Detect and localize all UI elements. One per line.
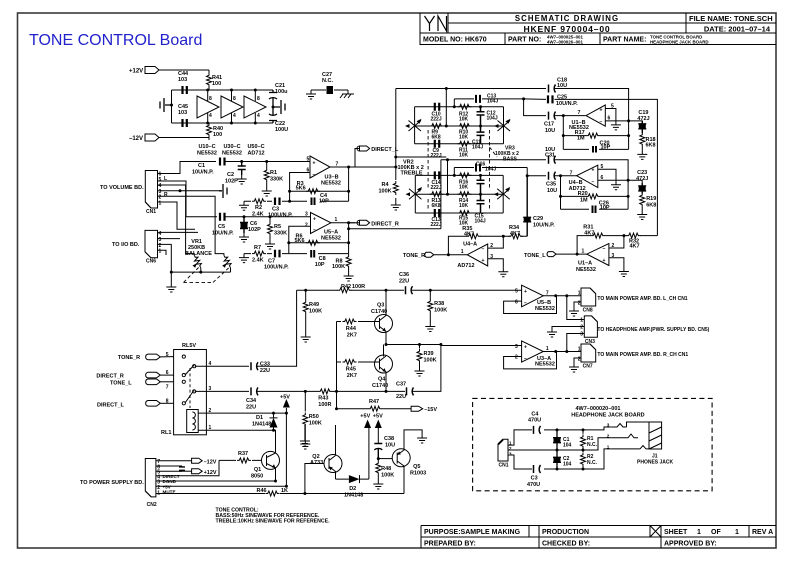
svg-text:10U/N.P.: 10U/N.P.: [556, 101, 578, 107]
svg-text:OF: OF: [711, 529, 721, 536]
svg-text:CN1: CN1: [499, 463, 509, 469]
dashed box: [473, 398, 712, 490]
svg-text:1: 1: [509, 440, 512, 445]
svg-text:1: 1: [461, 249, 464, 255]
capacitor C5: [220, 213, 225, 221]
capacitor C26: [593, 206, 596, 214]
svg-text:8: 8: [233, 96, 236, 102]
svg-text:−: −: [482, 247, 485, 253]
svg-text:TONE_L: TONE_L: [524, 253, 546, 259]
svg-text:DIRECT_R: DIRECT_R: [96, 374, 124, 380]
svg-text:4: 4: [209, 113, 212, 119]
connector CN8: [581, 288, 596, 306]
wires CN6: [158, 232, 199, 283]
transistor Q5: [378, 458, 392, 460]
svg-text:C16: C16: [476, 162, 485, 168]
resistor R12: [457, 104, 471, 109]
capacitor C16v: [477, 175, 485, 194]
op-amp U3-A: [522, 341, 544, 362]
capacitor C4: [312, 198, 315, 206]
svg-text:222J: 222J: [431, 222, 442, 228]
svg-text:−: −: [313, 172, 316, 178]
svg-text:D2: D2: [349, 486, 356, 492]
svg-text:FILE NAME: TONE.SCH: FILE NAME: TONE.SCH: [689, 14, 773, 23]
svg-text:6: 6: [601, 175, 604, 181]
output wire / feedback U3-B: [290, 167, 355, 201]
labels U10-C U30-C U50-C: [197, 144, 265, 157]
svg-text:3: 3: [612, 253, 615, 259]
svg-text:22U: 22U: [246, 405, 256, 411]
resistor R11: [457, 141, 471, 146]
svg-text:4: 4: [233, 113, 236, 119]
svg-text:–15V: –15V: [424, 407, 437, 413]
potentiometer VR1a: [186, 252, 195, 255]
connector CN2: [145, 459, 156, 497]
capacitor C36: [406, 286, 413, 294]
svg-text:R44: R44: [346, 326, 357, 332]
svg-text:6K8: 6K8: [646, 203, 656, 209]
wire cell to U4-A: [445, 156, 447, 158]
resistor R4: [393, 181, 398, 195]
svg-text:1M: 1M: [577, 135, 585, 141]
svg-text:C37: C37: [396, 382, 406, 388]
svg-text:AD712: AD712: [247, 151, 264, 157]
svg-text:D1: D1: [256, 415, 263, 421]
op-amp U5-A: [311, 213, 331, 234]
dashed gang link: [184, 268, 229, 283]
svg-text:+5V: +5V: [280, 395, 290, 401]
svg-text:8: 8: [166, 398, 169, 404]
svg-text:TO VOLUME BD.: TO VOLUME BD.: [100, 185, 144, 191]
svg-text:C25: C25: [557, 95, 567, 101]
svg-text:10K: 10K: [459, 203, 469, 209]
svg-text:10U/N.P.: 10U/N.P.: [533, 223, 555, 229]
svg-text:102P: 102P: [225, 179, 238, 185]
diode D1: [270, 413, 278, 430]
port DIRECT_R: [349, 222, 360, 224]
wire rails to buffers: [441, 345, 522, 347]
resistor R3: [306, 189, 320, 194]
svg-text:330K: 330K: [274, 231, 287, 237]
op-amp U4-A (points left): [467, 244, 488, 266]
svg-text:+5V: +5V: [360, 414, 370, 420]
svg-text:2: 2: [607, 433, 610, 438]
pin wires: [156, 460, 219, 475]
svg-text:1: 1: [159, 201, 162, 207]
svg-text:+: +: [524, 289, 527, 295]
svg-text:Q3: Q3: [377, 303, 384, 309]
svg-text:–12V: –12V: [204, 460, 217, 466]
svg-text:SCHEMATIC DRAWING: SCHEMATIC DRAWING: [515, 14, 619, 23]
relay coil: [187, 410, 199, 433]
svg-text:330K: 330K: [270, 177, 283, 183]
svg-text:C34: C34: [246, 398, 257, 404]
svg-text:10U/N.P.: 10U/N.P.: [212, 231, 234, 237]
svg-text:PRODUCTION: PRODUCTION: [542, 529, 589, 536]
svg-text:C29: C29: [533, 216, 543, 222]
pot left arrow: [409, 189, 422, 200]
pot VR3 right arrow: [498, 121, 511, 132]
svg-text:10P: 10P: [600, 205, 610, 211]
op-amp U1-A (points left): [587, 244, 609, 266]
svg-text:–12V: –12V: [129, 136, 143, 142]
svg-text:C35: C35: [546, 182, 556, 188]
capacitor C15: [477, 194, 485, 213]
capacitor C13: [476, 95, 480, 103]
svg-text:+: +: [313, 217, 316, 223]
riser + C16 row: [448, 160, 528, 195]
svg-text:104J: 104J: [485, 166, 496, 172]
svg-text:1: 1: [607, 444, 610, 449]
contacts: [182, 355, 185, 358]
svg-text:R19: R19: [646, 196, 656, 202]
capacitor C31: [549, 156, 556, 164]
svg-text:10K: 10K: [459, 152, 469, 158]
svg-text:−: −: [313, 228, 316, 234]
svg-text:N.C.: N.C.: [587, 460, 598, 466]
wires from CN1: [158, 162, 217, 174]
resistor R15 top: [457, 173, 471, 178]
capacitor C2: [553, 450, 561, 469]
resistor R44: [337, 321, 380, 323]
svg-text:3: 3: [515, 344, 518, 350]
svg-text:222J: 222J: [431, 185, 442, 191]
pot VR2 left arrow: [409, 121, 422, 132]
svg-text:22U: 22U: [399, 279, 409, 285]
op-amp U1-B (points left): [586, 105, 605, 126]
resistor R19: [640, 193, 645, 207]
pin5 to ground: [605, 109, 616, 121]
port -15V: [411, 406, 423, 411]
feedback loop: [504, 296, 581, 314]
CN3 wires: [552, 296, 584, 352]
svg-text:C33: C33: [260, 362, 270, 368]
svg-text:2K7: 2K7: [347, 333, 357, 339]
svg-text:22U: 22U: [260, 368, 270, 374]
svg-text:100K: 100K: [309, 421, 322, 427]
resistor R41: [207, 73, 212, 87]
svg-text:2: 2: [580, 325, 583, 331]
svg-text:R46: R46: [257, 488, 267, 494]
pin6 wire: [598, 180, 642, 183]
resistor R38: [429, 289, 432, 292]
svg-text:−: −: [592, 180, 595, 186]
port DIRECT_L: [330, 149, 360, 168]
svg-text:102P: 102P: [248, 227, 261, 233]
CN7 pin2 ground: [574, 358, 581, 363]
svg-text:TO HEADPHONE AMP.(PWR. SUPPLY: TO HEADPHONE AMP.(PWR. SUPPLY BD. CN5): [597, 327, 709, 333]
svg-text:2.4K: 2.4K: [252, 258, 264, 264]
resistor R43: [304, 390, 307, 393]
resistor R14: [457, 192, 471, 197]
rails: [415, 107, 504, 144]
svg-text:100R: 100R: [318, 402, 331, 408]
svg-text:HEADPHONE JACK BOARD: HEADPHONE JACK BOARD: [650, 40, 709, 45]
svg-text:TONE_R: TONE_R: [118, 355, 140, 361]
capacitor C45: [183, 119, 187, 127]
op-amp U3-B: [310, 156, 330, 178]
capacitor C8: [311, 250, 314, 258]
svg-text:R37: R37: [238, 451, 248, 457]
potentiometer VR1b: [215, 252, 224, 255]
capacitor C12: [477, 107, 485, 126]
svg-text:NE5532: NE5532: [576, 267, 596, 273]
diode D2: [336, 475, 369, 483]
svg-text:Q1: Q1: [254, 467, 261, 473]
svg-text:TO I/O BD.: TO I/O BD.: [112, 242, 140, 248]
svg-text:5: 5: [166, 352, 169, 358]
svg-text:104J: 104J: [487, 98, 498, 104]
base bias vertical: [336, 322, 338, 409]
svg-text:+5V: +5V: [373, 414, 383, 420]
svg-text:104J: 104J: [487, 115, 498, 121]
svg-text:C17: C17: [544, 122, 554, 128]
svg-text:8050: 8050: [251, 474, 263, 480]
resistor R6: [306, 240, 320, 245]
svg-text:4K7: 4K7: [464, 231, 474, 237]
resistor R32: [624, 235, 658, 237]
connector CN1: [145, 171, 157, 209]
resistor R40: [207, 123, 212, 137]
op-amp U5-B: [522, 285, 544, 307]
feedback R17: [563, 116, 628, 150]
resistor R48: [377, 459, 379, 461]
svg-text:CN7: CN7: [583, 364, 593, 370]
svg-text:100K: 100K: [379, 189, 392, 195]
connector CN7: [581, 344, 596, 362]
svg-text:−: −: [524, 356, 527, 362]
svg-text:1N4148: 1N4148: [252, 422, 271, 428]
svg-text:5K6: 5K6: [296, 185, 306, 191]
mid node wire: [386, 344, 441, 346]
svg-text:R5: R5: [274, 224, 281, 230]
capacitor C44: [183, 86, 187, 94]
capacitor C9: [435, 140, 439, 148]
wire to treble net: [349, 89, 447, 181]
svg-text:PREPARED BY:: PREPARED BY:: [424, 541, 476, 548]
svg-text:+: +: [524, 345, 527, 351]
svg-text:6: 6: [515, 300, 518, 306]
capacitor C10: [435, 103, 439, 111]
wire lower rail to bass net: [349, 160, 448, 229]
svg-text:C31: C31: [545, 153, 555, 159]
wires U5-A: [289, 223, 355, 254]
resistor R42: [338, 288, 352, 293]
VR1 bottom rail: [171, 271, 230, 273]
connector CN6: [145, 230, 158, 257]
svg-text:100K: 100K: [424, 358, 437, 364]
svg-text:3: 3: [305, 212, 308, 218]
resistor R34: [503, 235, 527, 237]
svg-text:2: 2: [515, 355, 518, 361]
C17 row: [524, 99, 586, 116]
ground bar mid: [219, 184, 227, 198]
svg-text:2: 2: [305, 223, 308, 229]
svg-text:10U: 10U: [385, 443, 395, 449]
svg-text:PART NAME:: PART NAME:: [603, 37, 646, 44]
svg-text:10P: 10P: [315, 262, 325, 268]
upper signal rail: [297, 289, 522, 291]
svg-text:1M: 1M: [580, 198, 588, 204]
svg-text:7: 7: [166, 384, 169, 390]
svg-text:100K: 100K: [332, 264, 345, 270]
feedback loop: [504, 352, 581, 369]
transistor Q1: [262, 451, 280, 469]
capacitor C38: [374, 444, 382, 459]
svg-text:10K: 10K: [459, 116, 469, 122]
svg-text:1: 1: [735, 529, 739, 536]
C35 row: [527, 175, 576, 177]
pin3 to ground: [609, 258, 624, 268]
svg-text:R45: R45: [346, 367, 356, 373]
capacitor C29: [523, 176, 531, 237]
phones jack J1: [611, 422, 661, 449]
capacitor C20: [593, 146, 596, 153]
svg-text:100U/N.P.: 100U/N.P.: [268, 213, 293, 219]
svg-text:3: 3: [607, 423, 610, 428]
svg-text:+: +: [603, 258, 606, 264]
opamp power triangle 1: [197, 96, 219, 118]
relay box: [174, 350, 207, 435]
resistor R18: [640, 133, 645, 147]
svg-text:CN2: CN2: [147, 502, 157, 508]
svg-text:10U: 10U: [545, 128, 555, 134]
svg-text:3: 3: [509, 451, 512, 456]
svg-text:4K7: 4K7: [584, 231, 594, 237]
connector CN1 (hp): [498, 439, 508, 461]
svg-text:U4–A: U4–A: [463, 242, 477, 248]
svg-text:1: 1: [580, 318, 583, 324]
svg-text:10U: 10U: [557, 83, 567, 89]
svg-text:TO POWER SUPPLY BD.: TO POWER SUPPLY BD.: [80, 480, 144, 486]
svg-text:R39: R39: [424, 351, 434, 357]
svg-text:R38: R38: [434, 301, 444, 307]
svg-text:NE5532: NE5532: [321, 235, 341, 241]
svg-text:2: 2: [578, 301, 581, 307]
svg-text:TONE_L: TONE_L: [110, 381, 132, 387]
capacitor C18: [549, 85, 556, 93]
svg-text:CN6: CN6: [146, 259, 156, 265]
svg-text:C38: C38: [384, 436, 394, 442]
capacitor C11: [477, 126, 485, 144]
capacitor C6: [240, 217, 248, 233]
capacitor C25: [548, 95, 553, 103]
resistor R2 NC: [582, 450, 584, 452]
pin2 wire: [488, 236, 504, 248]
resistor R46: [266, 491, 280, 496]
svg-text:470U: 470U: [527, 482, 540, 488]
svg-text:C36: C36: [399, 272, 409, 278]
resistor R49: [305, 290, 307, 300]
svg-text:PURPOSE:SAMPLE MAKING: PURPOSE:SAMPLE MAKING: [424, 529, 521, 536]
svg-text:4W7–000026–001: 4W7–000026–001: [547, 40, 583, 45]
svg-text:100: 100: [213, 132, 222, 138]
svg-text:2K7: 2K7: [347, 373, 357, 379]
pin wires 8/4: [208, 90, 256, 123]
pot right arrow: [497, 189, 510, 200]
svg-text:R47: R47: [369, 399, 379, 405]
svg-text:104: 104: [563, 443, 572, 449]
svg-text:100R: 100R: [352, 284, 365, 290]
svg-text:1: 1: [578, 291, 581, 297]
svg-text:REV A: REV A: [752, 529, 773, 536]
rails: [415, 175, 503, 213]
svg-text:8: 8: [209, 96, 212, 102]
svg-text:+: +: [313, 161, 316, 167]
pin3 to ground: [488, 259, 504, 268]
svg-text:+: +: [592, 168, 595, 174]
svg-text:2: 2: [612, 243, 615, 249]
svg-text:U50–C: U50–C: [247, 144, 264, 150]
ground: [306, 90, 316, 99]
svg-text:R43: R43: [318, 396, 328, 402]
svg-text:4W7–000020–001: 4W7–000020–001: [576, 406, 621, 412]
capacitor C17: [549, 112, 556, 120]
svg-text:3: 3: [490, 254, 493, 260]
svg-text:104: 104: [563, 462, 572, 468]
svg-text:DATE: 2001–07–14: DATE: 2001–07–14: [704, 25, 771, 34]
svg-text:RL1: RL1: [161, 430, 171, 436]
svg-text:7: 7: [570, 171, 573, 177]
svg-text:6K8: 6K8: [432, 203, 441, 209]
svg-text:10K: 10K: [459, 184, 469, 190]
svg-text:Q4: Q4: [378, 377, 386, 383]
op-amp U4-B (points left): [577, 165, 598, 187]
chassis ground: [340, 90, 354, 98]
svg-text:R4: R4: [382, 182, 390, 188]
ground audio left: [160, 98, 172, 112]
svg-text:3: 3: [580, 332, 583, 338]
capacitor C37: [386, 346, 441, 392]
svg-text:C3: C3: [531, 476, 538, 482]
svg-text:1: 1: [335, 217, 338, 223]
dashed gang lines: [428, 130, 489, 189]
svg-text:6K8: 6K8: [432, 135, 441, 141]
svg-text:R1: R1: [270, 170, 277, 176]
svg-text:10U: 10U: [547, 188, 557, 194]
svg-text:CN1: CN1: [146, 209, 156, 215]
svg-text:TONE_R: TONE_R: [403, 253, 425, 259]
svg-text:104J: 104J: [475, 218, 486, 224]
svg-text:SHEET: SHEET: [664, 529, 688, 536]
svg-text:R: R: [164, 192, 168, 198]
connector CN3: [584, 316, 597, 337]
svg-text:NE5532: NE5532: [535, 306, 555, 312]
svg-text:2: 2: [490, 243, 493, 249]
feedback R20: [561, 176, 629, 210]
svg-text:472J: 472J: [636, 176, 648, 182]
capacitor C34 + wire: [206, 390, 305, 392]
svg-text:5: 5: [307, 157, 310, 163]
svg-text:N.C.: N.C.: [587, 442, 598, 448]
svg-text:CHECKED BY:: CHECKED BY:: [542, 541, 590, 548]
svg-text:103: 103: [178, 110, 187, 116]
C25 row wire: [454, 99, 657, 236]
svg-text:C2: C2: [227, 172, 234, 178]
svg-text:10P: 10P: [601, 145, 611, 151]
opamp power triangle 2: [221, 96, 243, 118]
svg-text:103: 103: [178, 77, 187, 83]
resistor R5: [269, 215, 272, 218]
svg-text:22U: 22U: [396, 394, 406, 400]
capacitor C3: [534, 465, 541, 473]
capacitor C4: [534, 426, 541, 434]
svg-text:6: 6: [608, 116, 611, 122]
svg-text:R7: R7: [254, 245, 261, 251]
wire top rail: [172, 90, 274, 123]
svg-text:4: 4: [257, 113, 260, 119]
svg-text:1: 1: [159, 248, 162, 254]
